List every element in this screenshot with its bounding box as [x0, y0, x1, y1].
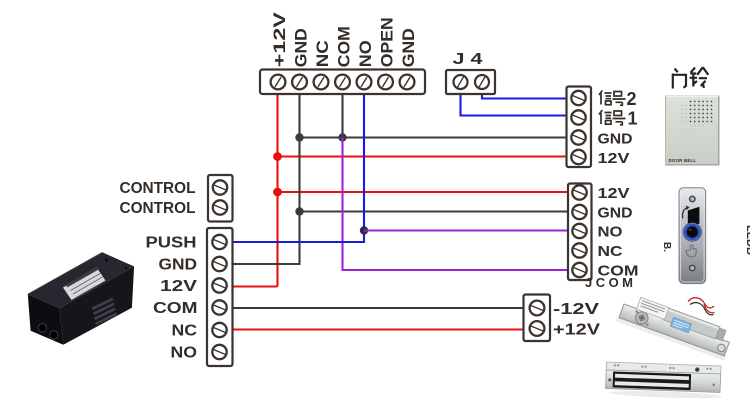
PSU label sticker [63, 268, 106, 300]
mag lock left hole [608, 378, 611, 381]
bolt lock cylinder screw [634, 310, 650, 326]
svg-text:PUSH: PUSH [146, 235, 197, 252]
mag lock recess [613, 371, 692, 390]
svg-text:NO: NO [598, 224, 623, 241]
bolt lock shadow [616, 317, 727, 361]
mag lock shadow [609, 390, 721, 400]
wire blue J4 pin2 to signal2 [482, 93, 566, 99]
bolt lock faceplate [619, 304, 729, 356]
svg-text:JCOM: JCOM [585, 275, 633, 290]
svg-text:NC: NC [313, 40, 332, 67]
mag lock magnet bands [615, 374, 689, 380]
bolt lock solenoid section [663, 308, 720, 339]
wire blue J4 pin1 to signal1 [461, 93, 567, 116]
PSU label text lines [71, 273, 103, 298]
pin GND [571, 130, 585, 144]
PSU top face [28, 252, 134, 308]
wire black GND vertical bus [232, 93, 300, 264]
pin signal1 [571, 110, 585, 124]
mag lock right small dot [713, 384, 715, 386]
node red junction A [273, 152, 282, 161]
door bell label CJK [673, 67, 709, 88]
pin 12V [571, 150, 585, 164]
terminal block reader2 (right middle) [568, 184, 592, 281]
pin control1 [213, 180, 227, 194]
terminal block J1 top (controller main) [260, 70, 425, 95]
svg-text:GND: GND [292, 28, 311, 67]
exit button round button [683, 222, 702, 241]
bolt lock red wire [688, 298, 715, 313]
pin +12V [530, 321, 545, 336]
pin GND [212, 257, 226, 271]
svg-text:NC: NC [598, 243, 623, 260]
node black junction E [338, 133, 346, 141]
wire purple NO to reader2 [364, 229, 568, 231]
bolt lock end cap [716, 328, 726, 341]
terminal block CONTROL [208, 175, 233, 222]
pin NO [572, 224, 586, 238]
glyph men [675, 69, 678, 73]
node red junction B [273, 188, 282, 197]
magnetic lock [605, 362, 722, 400]
svg-text:2: 2 [627, 89, 637, 109]
mag lock top face [606, 362, 721, 374]
svg-text:COM: COM [153, 300, 198, 317]
node black junction D [295, 207, 303, 215]
exit button door icon [688, 207, 700, 227]
wire red NC to +12V [232, 328, 524, 330]
wire red branch to reader1 12V [278, 155, 567, 157]
exit button bottom screw [689, 265, 696, 272]
bolt lock screw right [717, 343, 726, 352]
pin signal2 [571, 91, 585, 105]
PSU hole 1 [38, 324, 46, 332]
svg-text:GND: GND [399, 28, 418, 67]
pin 6 OPEN [378, 75, 393, 90]
terminal block lock power [524, 295, 551, 342]
terminal block PSU [207, 228, 233, 366]
bolt lock body label [637, 297, 669, 319]
svg-text:J 4: J 4 [453, 51, 483, 68]
pin COM [572, 263, 586, 277]
glyph ling [690, 67, 709, 88]
pin 1 +12V [271, 75, 286, 90]
pin 7 GND [400, 75, 415, 90]
pin -12V [530, 301, 545, 316]
wire red +12V vertical bus [276, 93, 278, 287]
svg-text:LEDB: LEDB [744, 225, 750, 255]
PSU front face with vents [59, 266, 134, 344]
label signal1 (CJK hand-drawn) [599, 110, 626, 125]
svg-text:CONTROL: CONTROL [120, 180, 196, 197]
label signal2 (CJK hand-drawn) [599, 91, 626, 106]
svg-text:12V: 12V [598, 150, 630, 167]
svg-text:B.: B. [661, 242, 672, 252]
mag lock front face [606, 370, 721, 392]
pin NC [212, 323, 226, 337]
svg-text:12V: 12V [598, 185, 630, 202]
wire black COM drop from top block [341, 93, 343, 138]
pin GND [572, 205, 586, 219]
svg-text:NO: NO [356, 40, 375, 67]
electric bolt lock [616, 292, 736, 361]
PSU screw dots on top [105, 259, 108, 262]
svg-text:CONTROL: CONTROL [120, 200, 196, 217]
wire red elbow into PSU 12V [232, 285, 278, 287]
pin 12V [572, 185, 586, 199]
wire purple COM to reader2 [343, 138, 569, 271]
pin 2 GND [292, 75, 307, 90]
PSU label title bar [67, 268, 99, 286]
pin 1 [454, 75, 468, 89]
mag lock top screws [614, 364, 712, 370]
terminal block reader1 (right top) [567, 87, 592, 168]
svg-text:+12V: +12V [553, 322, 600, 339]
pin COM [212, 300, 226, 314]
svg-text:NO: NO [171, 345, 198, 362]
svg-text:DOOR BELL: DOOR BELL [669, 158, 697, 163]
svg-text:-12V: -12V [553, 301, 599, 318]
exit button top screw [689, 196, 696, 203]
svg-text:+12V: +12V [270, 11, 289, 67]
bolt lock plate dots [635, 310, 639, 314]
node black junction C [295, 133, 303, 141]
pin 5 NO [357, 75, 372, 90]
door bell body [666, 96, 720, 165]
pin NC [572, 243, 586, 257]
pin 2 [475, 75, 489, 89]
wire blue NO to PUSH [232, 93, 364, 242]
door bell speaker dots [690, 101, 713, 123]
bolt lock black wire [690, 303, 714, 315]
pin PUSH [212, 235, 226, 249]
svg-text:12V: 12V [160, 278, 197, 295]
bolt lock blue sticker [670, 317, 692, 333]
connector J4 [446, 70, 495, 94]
PSU top edge highlight [28, 252, 103, 294]
power supply unit PSU (black box photo) [28, 252, 134, 344]
exit button device [679, 188, 706, 284]
PSU vent slots [92, 299, 116, 324]
exit button hand icon [686, 245, 696, 257]
PSU left end face [28, 294, 64, 344]
svg-text:GND: GND [598, 131, 633, 148]
pin 12V [212, 278, 226, 292]
PSU hole 2 [50, 331, 58, 339]
wire black branch to reader2 GND [300, 210, 569, 212]
door bell faint dots [681, 105, 704, 131]
pin control2 [213, 200, 227, 214]
pin 3 NC [314, 75, 329, 90]
wire red branch to reader2 12V [278, 191, 569, 193]
node dark junction F [360, 226, 368, 234]
pin 4 COM [335, 75, 350, 90]
svg-text:NC: NC [172, 323, 198, 340]
pin NO [212, 345, 226, 359]
svg-text:COM: COM [335, 26, 354, 67]
wire black COM to -12V [232, 307, 524, 309]
svg-text:OPEN: OPEN [378, 17, 397, 67]
svg-text:GND: GND [598, 205, 633, 222]
exit button plate [679, 188, 706, 284]
wire black branch to reader1 GND [300, 136, 567, 138]
mag lock right screw hole [695, 367, 700, 372]
svg-text:1: 1 [628, 108, 638, 128]
svg-text:GND: GND [159, 257, 198, 274]
